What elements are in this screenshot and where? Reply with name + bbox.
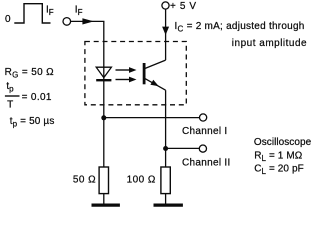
label IC = 2 mA; adjusted through [175, 21, 305, 34]
LED D1 (emitter diode of optocoupler) [96, 67, 111, 80]
svg-text:IF: IF [75, 4, 83, 17]
current arrow IC on supply wire [162, 27, 169, 35]
junction node B (emitter / 100 ohm / channel II) [163, 146, 168, 151]
svg-text:100 Ω: 100 Ω [127, 175, 156, 186]
svg-text:tp: tp [6, 81, 14, 94]
wire node B to Channel II terminal [166, 147, 200, 149]
light arrow 1 (optical coupling) [116, 67, 137, 73]
label tp = 50 us [10, 116, 55, 129]
current arrow IF on input wire [82, 18, 93, 24]
phototransistor Q1 base bar [143, 63, 146, 84]
label CL = 20 pF [254, 163, 304, 176]
label RG = 50 ohm [5, 67, 55, 80]
Channel I terminal [200, 114, 207, 121]
wire input terminal to node [71, 20, 105, 22]
input terminal (signal generator) [63, 18, 71, 26]
fraction bar tp/T [5, 95, 20, 97]
svg-text:Channel I: Channel I [182, 126, 228, 137]
label Channel I [182, 126, 228, 137]
wire emitter down to 100 ohm resistor [165, 90, 167, 167]
wire +5V down to collector [165, 9, 167, 60]
label Channel II [182, 158, 231, 169]
svg-text:= 0.01: = 0.01 [22, 92, 52, 103]
wire R1 to ground [103, 194, 105, 204]
label = 0.01 [22, 92, 52, 103]
light arrow 2 (optical coupling) [116, 77, 137, 83]
svg-text:0: 0 [5, 14, 11, 25]
label +5V [170, 1, 197, 12]
svg-text:50 Ω: 50 Ω [73, 175, 96, 186]
label IF (waveform amplitude) [46, 4, 54, 17]
ground (below R2) [154, 203, 183, 206]
label 100 ohm [127, 175, 156, 186]
label 0 (waveform baseline) [5, 14, 11, 25]
wire input node down through LED to 50 ohm resistor [103, 21, 105, 167]
svg-text:Oscilloscope: Oscilloscope [254, 137, 312, 148]
svg-text:input amplitude: input amplitude [232, 38, 307, 49]
label input amplitude [232, 38, 307, 49]
+5V supply terminal [162, 2, 169, 9]
label tp over T fraction [6, 81, 14, 110]
ground (below R1) [92, 203, 120, 206]
svg-text:CL = 20 pF: CL = 20 pF [254, 163, 304, 176]
svg-text:Channel II: Channel II [182, 158, 231, 169]
wire R2 to ground [165, 194, 167, 204]
optocoupler U1 dashed package outline [85, 42, 186, 105]
resistor R1 50 ohm body [99, 167, 108, 194]
svg-text:+ 5 V: + 5 V [170, 1, 197, 12]
svg-text:RL = 1 MΩ: RL = 1 MΩ [254, 150, 303, 163]
junction node A (LED cathode / 50 ohm / channel I) [101, 115, 106, 120]
svg-text:IF: IF [46, 4, 54, 17]
phototransistor Q1 emitter lead [145, 79, 165, 91]
Channel II terminal [199, 145, 206, 152]
input pulse waveform [14, 4, 50, 23]
phototransistor Q1 collector lead [145, 60, 165, 68]
svg-text:IC = 2 mA; adjusted through: IC = 2 mA; adjusted through [175, 21, 305, 34]
label Oscilloscope [254, 137, 312, 148]
svg-text:tp = 50 µs: tp = 50 µs [10, 116, 55, 129]
label IF (input current) [75, 4, 83, 17]
svg-text:T: T [7, 99, 13, 110]
resistor R2 100 ohm body [161, 167, 170, 194]
svg-text:RG = 50 Ω: RG = 50 Ω [5, 67, 55, 80]
wire node A to Channel I terminal [104, 117, 200, 119]
label 50 ohm [73, 175, 96, 186]
label RL = 1 Mohm [254, 150, 303, 163]
